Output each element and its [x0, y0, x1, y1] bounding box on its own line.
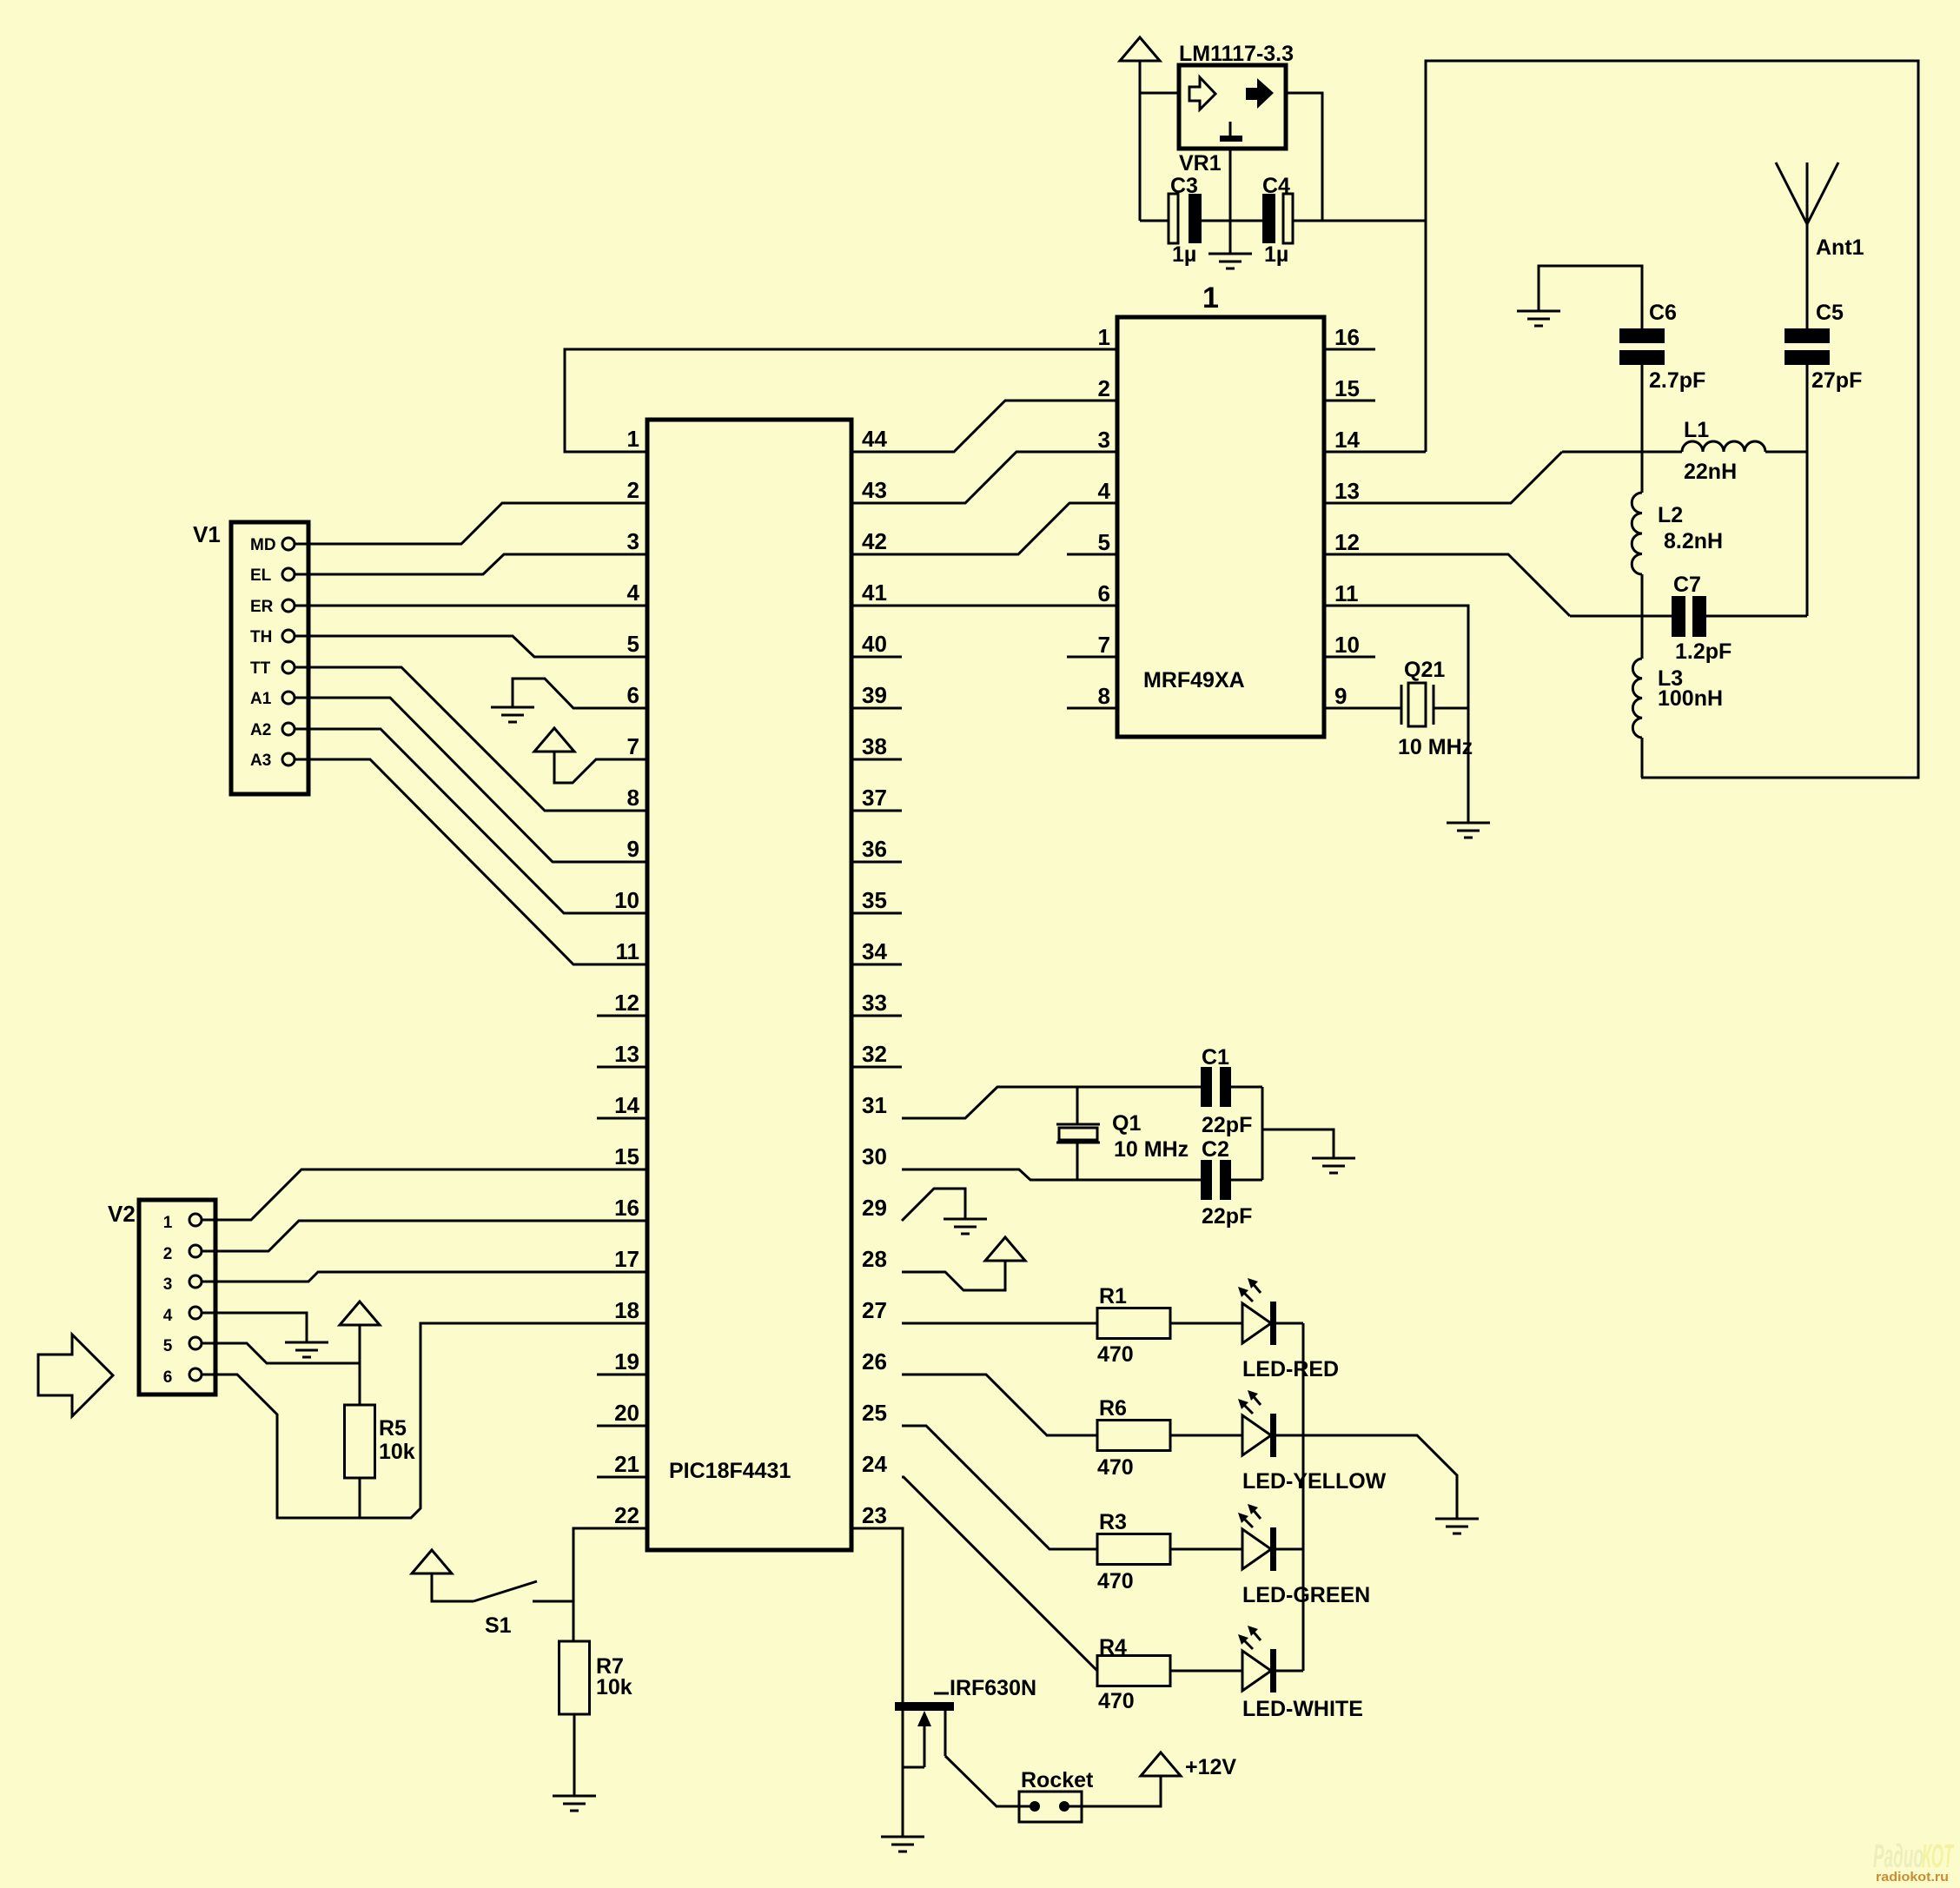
svg-text:5: 5	[1098, 529, 1110, 555]
svg-text:9: 9	[1334, 683, 1347, 709]
wire supply rail through C3 C4	[1140, 220, 1426, 222]
inductor L2	[1632, 493, 1723, 574]
svg-text:LED-GREEN: LED-GREEN	[1242, 1583, 1370, 1607]
wire PIC pin41 to MRF pin6	[851, 605, 1117, 607]
wire MRF pin8 stub	[1067, 707, 1117, 710]
svg-text:1: 1	[163, 1214, 173, 1232]
svg-text:A1: A1	[250, 690, 272, 708]
svg-text:30: 30	[862, 1143, 887, 1169]
wire LED-GREEN cathode to bus	[1276, 1548, 1303, 1551]
wire MRF pin15 stub	[1324, 400, 1375, 402]
svg-text:29: 29	[862, 1195, 887, 1221]
wire PIC pin1 to MRF pin1	[565, 349, 1117, 452]
IC U2 MRF49XA body	[1117, 317, 1324, 737]
wire PIC pin32 stub	[851, 1066, 902, 1069]
wire C6 column	[1641, 365, 1644, 778]
svg-text:LM1117-3.3: LM1117-3.3	[1179, 42, 1294, 66]
svg-text:7: 7	[627, 733, 639, 759]
crystal Q1	[1056, 1111, 1189, 1162]
wire V1 TT to PIC pin8	[295, 667, 647, 811]
transistor Q2 IRF630N	[895, 1676, 1036, 1837]
wire R4 to LED-WHITE	[1170, 1670, 1242, 1673]
resistor R4	[1097, 1635, 1170, 1713]
wire PIC pin36 stub	[851, 861, 902, 864]
wire PIC pin31 to C1 row	[902, 1087, 1201, 1118]
svg-text:1µ: 1µ	[1172, 242, 1196, 267]
svg-text:14: 14	[614, 1092, 639, 1118]
svg-text:42: 42	[862, 528, 887, 554]
wire PIC pin19 stub	[597, 1374, 647, 1376]
wire LED cathode bus	[1302, 1323, 1305, 1671]
power symbol S1	[412, 1550, 452, 1573]
svg-text:2.7pF: 2.7pF	[1649, 368, 1705, 393]
wire VR1 output	[1286, 93, 1322, 221]
ground PIC pin6	[491, 707, 534, 722]
svg-text:R3: R3	[1099, 1510, 1127, 1534]
svg-text:1: 1	[1098, 324, 1110, 350]
svg-text:11: 11	[1334, 580, 1359, 606]
ground V2 pin4	[285, 1342, 328, 1357]
wire power to R5	[359, 1325, 361, 1405]
svg-text:31: 31	[862, 1092, 887, 1118]
svg-text:10k: 10k	[379, 1440, 415, 1464]
wire V1 A1 to PIC pin9	[295, 698, 647, 862]
wire PIC pin14 stub	[597, 1117, 647, 1120]
power symbol VCC regulator	[1120, 37, 1160, 61]
wire PIC pin7 to power	[554, 752, 647, 783]
svg-text:V2: V2	[108, 1201, 136, 1227]
node V1 TH	[250, 628, 295, 646]
svg-text:6: 6	[163, 1368, 173, 1387]
wire C5 to C7 node	[1806, 365, 1809, 616]
wire V1 ER to PIC pin4	[295, 605, 647, 607]
capacitor C6	[1619, 301, 1705, 393]
ground LED-YELLOW	[1435, 1519, 1479, 1534]
wire VCC stem to rail	[1140, 61, 1179, 221]
svg-text:Rocket: Rocket	[1021, 1768, 1094, 1792]
capacitor C4	[1262, 174, 1293, 267]
svg-text:36: 36	[862, 836, 887, 862]
svg-text:20: 20	[614, 1400, 639, 1426]
svg-text:1: 1	[1202, 282, 1219, 315]
capacitor C7	[1672, 573, 1732, 664]
svg-text:TH: TH	[250, 628, 272, 646]
svg-text:8: 8	[627, 785, 639, 811]
svg-text:3: 3	[163, 1275, 173, 1294]
switch S1	[473, 1581, 573, 1638]
svg-text:Q21: Q21	[1404, 658, 1445, 682]
wire MRF pin3 to PIC pin43	[851, 452, 1117, 503]
watermark	[1873, 1838, 1954, 1885]
svg-text:C2: C2	[1202, 1137, 1229, 1162]
svg-text:16: 16	[1334, 324, 1360, 350]
svg-text:2: 2	[627, 477, 639, 503]
svg-text:10k: 10k	[596, 1675, 632, 1699]
svg-text:A3: A3	[250, 752, 271, 770]
capacitor C2	[1201, 1137, 1252, 1229]
wire V1 A2 to PIC pin10	[295, 729, 647, 913]
wire V1 A3 to PIC pin11	[295, 759, 647, 964]
svg-text:6: 6	[1098, 580, 1110, 606]
svg-text:10 MHz: 10 MHz	[1114, 1137, 1189, 1162]
wire PIC pin38 stub	[851, 759, 902, 761]
wire PIC pin30 to C2 row	[902, 1169, 1201, 1180]
wire PIC pin33 stub	[851, 1015, 902, 1017]
svg-text:2: 2	[1098, 375, 1110, 401]
svg-text:A2: A2	[250, 721, 271, 739]
resistor R1	[1097, 1284, 1170, 1367]
svg-text:40: 40	[862, 631, 887, 657]
svg-text:S1: S1	[485, 1613, 512, 1638]
svg-text:LED-YELLOW: LED-YELLOW	[1242, 1469, 1387, 1494]
svg-text:IRF630N: IRF630N	[950, 1676, 1036, 1700]
svg-text:3: 3	[627, 528, 639, 554]
wire PIC pin26 to R6	[902, 1375, 1097, 1435]
node V1 ER	[250, 598, 295, 616]
wire V1 EL to PIC pin3	[295, 554, 647, 574]
wire MRF pin12 to C7	[1324, 554, 1570, 616]
wire PIC pin24 to R4	[902, 1477, 1097, 1671]
svg-text:LED-RED: LED-RED	[1242, 1357, 1339, 1381]
wire C1 C2 to ground	[1231, 1087, 1334, 1180]
svg-text:28: 28	[862, 1246, 887, 1272]
power symbol R5	[340, 1302, 380, 1325]
wire R6 to LED-YELLOW	[1170, 1434, 1242, 1437]
wire MRF pin4 to PIC pin42	[851, 503, 1117, 554]
svg-text:PIC18F4431: PIC18F4431	[669, 1459, 791, 1483]
svg-text:Q1: Q1	[1112, 1111, 1141, 1136]
svg-text:8: 8	[1098, 683, 1110, 709]
ground R7	[553, 1796, 596, 1811]
svg-text:VR1: VR1	[1179, 151, 1222, 176]
pin 6 V2	[163, 1368, 202, 1387]
ground IRF630N source	[881, 1837, 924, 1852]
svg-text:10: 10	[1334, 632, 1360, 658]
svg-text:4: 4	[163, 1307, 173, 1325]
LED LED-GREEN	[1238, 1504, 1370, 1607]
inductor L3	[1632, 659, 1723, 738]
wire PIC pin29 to ground	[902, 1189, 965, 1221]
wire MRF pin5 stub	[1067, 553, 1117, 556]
svg-text:C5: C5	[1816, 301, 1844, 325]
svg-text:22: 22	[614, 1502, 639, 1528]
wire V2 pin4 to ground	[202, 1313, 307, 1342]
svg-text:4: 4	[627, 580, 640, 606]
svg-text:EL: EL	[250, 566, 272, 585]
svg-text:V1: V1	[193, 521, 221, 547]
svg-text:13: 13	[1334, 478, 1360, 504]
wire MRF pin10 stub	[1324, 656, 1375, 659]
svg-text:R1: R1	[1099, 1284, 1127, 1308]
svg-text:LED-WHITE: LED-WHITE	[1242, 1697, 1363, 1721]
svg-text:1.2pF: 1.2pF	[1675, 639, 1732, 664]
wire PIC pin23 to gate	[851, 1528, 903, 1702]
svg-text:26: 26	[862, 1348, 887, 1375]
wire LED-WHITE cathode to bus	[1276, 1670, 1303, 1673]
svg-text:470: 470	[1097, 1569, 1134, 1593]
svg-text:24: 24	[862, 1451, 887, 1477]
svg-text:13: 13	[614, 1041, 639, 1067]
arrow connector V2	[38, 1335, 113, 1416]
wire PIC pin39 stub	[851, 707, 902, 710]
svg-text:25: 25	[862, 1400, 887, 1426]
svg-text:470: 470	[1097, 1455, 1134, 1480]
svg-text:C6: C6	[1649, 301, 1677, 325]
wire PIC pin40 stub	[851, 656, 902, 659]
inductor L1	[1682, 418, 1765, 484]
IC U1 PIC18F4431 body	[647, 420, 851, 1550]
svg-text:6: 6	[627, 682, 639, 708]
node V1 A2	[250, 721, 295, 739]
svg-text:12: 12	[614, 990, 639, 1016]
wire MRF pin2 to PIC pin44	[851, 401, 1117, 452]
svg-text:470: 470	[1098, 1689, 1135, 1713]
svg-text:27pF: 27pF	[1811, 368, 1862, 393]
wire PIC pin28 to power	[902, 1261, 1005, 1290]
svg-text:21: 21	[614, 1451, 639, 1477]
ground VR1	[1208, 254, 1252, 268]
pin 5 V2	[163, 1337, 202, 1355]
svg-text:12: 12	[1334, 529, 1360, 555]
wire power to S1	[432, 1573, 473, 1601]
wire R1 to LED-RED	[1170, 1322, 1242, 1325]
wire MRF pin16 stub	[1324, 348, 1375, 351]
wire MRF pin11 to ground	[1324, 606, 1468, 823]
svg-text:19: 19	[614, 1348, 639, 1375]
wire MRF pin9 to crystal	[1324, 707, 1468, 710]
svg-text:14: 14	[1334, 427, 1360, 453]
svg-text:32: 32	[862, 1041, 887, 1067]
svg-text:Ant1: Ant1	[1816, 235, 1864, 260]
resistor R3	[1097, 1510, 1170, 1593]
svg-text:15: 15	[614, 1143, 639, 1169]
capacitor C1	[1201, 1045, 1252, 1137]
svg-text:41: 41	[862, 580, 887, 606]
svg-text:+12V: +12V	[1185, 1755, 1236, 1779]
wire PIC pin25 to R3	[902, 1426, 1097, 1549]
svg-text:7: 7	[1098, 632, 1110, 658]
wire PIC pin21 stub	[597, 1476, 647, 1479]
LED LED-YELLOW	[1238, 1390, 1387, 1494]
ground PIC pin29	[944, 1219, 987, 1234]
svg-text:27: 27	[862, 1297, 887, 1323]
wire V2 pin5 to R5 top	[202, 1343, 360, 1363]
svg-text:11: 11	[616, 938, 640, 964]
svg-text:23: 23	[862, 1502, 887, 1528]
capacitor C3	[1169, 174, 1202, 267]
svg-text:1µ: 1µ	[1264, 242, 1288, 267]
wire PIC pin22 to R7	[573, 1528, 647, 1641]
svg-text:C4: C4	[1262, 174, 1290, 198]
wire LED-RED cathode to bus	[1276, 1322, 1303, 1325]
pin 1 V2	[163, 1214, 202, 1232]
svg-text:R6: R6	[1099, 1396, 1127, 1421]
wire MRF pin13 to L1	[1324, 452, 1562, 503]
svg-text:R5: R5	[379, 1416, 407, 1441]
svg-text:22pF: 22pF	[1202, 1204, 1252, 1229]
wire MRF pin14 to supply loop	[1324, 451, 1426, 454]
svg-text:5: 5	[627, 631, 639, 657]
wire V2 pin3 to PIC pin17	[202, 1272, 647, 1282]
svg-text:C7: C7	[1673, 573, 1701, 597]
svg-text:100nH: 100nH	[1658, 686, 1723, 711]
svg-text:2: 2	[163, 1245, 173, 1263]
ground C1 C2	[1312, 1158, 1355, 1173]
ground Q21	[1447, 823, 1490, 838]
svg-text:43: 43	[862, 477, 887, 503]
connector V1	[231, 522, 308, 794]
node V1 A1	[250, 690, 295, 708]
wire PIC pin37 stub	[851, 810, 902, 812]
voltage regulator VR1 LM1117-3.3	[1179, 42, 1294, 176]
wire PIC pin34 stub	[851, 964, 902, 966]
wire PIC pin13 stub	[597, 1066, 647, 1069]
wire PIC pin35 stub	[851, 912, 902, 915]
resistor R7	[560, 1641, 632, 1714]
svg-text:37: 37	[862, 785, 887, 811]
resistor R6	[1097, 1396, 1170, 1480]
wire C7 row	[1570, 615, 1807, 618]
node V1 MD	[250, 536, 295, 554]
svg-text:16: 16	[614, 1195, 639, 1221]
wire V2 pin1 to PIC pin15	[202, 1169, 647, 1220]
svg-text:34: 34	[862, 938, 887, 964]
pin 4 V2	[163, 1307, 202, 1325]
wire L1 row	[1562, 451, 1807, 454]
wire V2 pin2 to PIC pin16	[202, 1221, 647, 1251]
node V1 A3	[250, 752, 295, 770]
svg-text:radiokot.ru: radiokot.ru	[1876, 1870, 1949, 1885]
node V1 TT	[250, 659, 295, 678]
svg-text:33: 33	[862, 990, 887, 1016]
svg-text:22nH: 22nH	[1684, 460, 1737, 484]
svg-text:1: 1	[627, 426, 639, 452]
power symbol PIC pin7	[534, 728, 574, 752]
node V1 EL	[250, 566, 295, 585]
svg-text:9: 9	[627, 836, 639, 862]
wire LED-YELLOW cathode to ground	[1276, 1435, 1457, 1519]
LED LED-WHITE	[1238, 1626, 1363, 1721]
pin 3 V2	[163, 1275, 202, 1294]
svg-text:C3: C3	[1170, 174, 1198, 198]
wire R3 to LED-GREEN	[1170, 1548, 1242, 1551]
svg-text:39: 39	[862, 682, 887, 708]
svg-text:4: 4	[1098, 478, 1111, 504]
svg-text:MD: MD	[250, 536, 276, 554]
wire Rocket to +12V	[1069, 1776, 1161, 1806]
ground C6	[1517, 311, 1560, 326]
capacitor C5	[1785, 301, 1862, 393]
svg-text:10 MHz: 10 MHz	[1398, 735, 1473, 759]
svg-text:R4: R4	[1099, 1635, 1127, 1659]
svg-text:L1: L1	[1684, 418, 1709, 442]
svg-text:10: 10	[614, 887, 639, 913]
wire PIC pin12 stub	[597, 1015, 647, 1017]
wire PIC pin20 stub	[597, 1425, 647, 1428]
connector V2	[139, 1200, 215, 1394]
svg-text:35: 35	[862, 887, 887, 913]
svg-text:3: 3	[1098, 427, 1110, 453]
svg-text:15: 15	[1334, 375, 1360, 401]
resistor R5	[345, 1405, 415, 1478]
wire PIC pin27 to R1	[902, 1322, 1097, 1325]
antenna Ant1	[1776, 162, 1838, 328]
svg-text:18: 18	[614, 1297, 639, 1323]
svg-text:44: 44	[862, 426, 887, 452]
pin 2 V2	[163, 1245, 202, 1263]
svg-text:MRF49XA: MRF49XA	[1143, 668, 1245, 692]
wire supply loop box	[1426, 61, 1918, 778]
wire VR1 ground stem	[1229, 149, 1232, 254]
connector Rocket	[1019, 1768, 1094, 1822]
svg-text:5: 5	[163, 1337, 173, 1355]
svg-text:8.2nH: 8.2nH	[1664, 529, 1723, 553]
svg-text:ER: ER	[250, 598, 274, 616]
crystal Q21	[1398, 658, 1473, 759]
power symbol +12V	[1141, 1752, 1181, 1776]
LED LED-RED	[1238, 1278, 1339, 1381]
svg-text:C1: C1	[1202, 1045, 1229, 1070]
svg-text:22pF: 22pF	[1202, 1113, 1252, 1137]
svg-text:L2: L2	[1658, 503, 1683, 527]
wire PIC pin6 to ground	[513, 679, 647, 708]
wire V1 MD to PIC pin2	[295, 503, 647, 544]
svg-text:17: 17	[614, 1246, 639, 1272]
wire R5 bottom	[359, 1478, 361, 1518]
wire crystal Q1 column	[1076, 1087, 1079, 1180]
wire drain to Rocket	[945, 1756, 1030, 1806]
svg-text:470: 470	[1097, 1342, 1134, 1367]
wire C6 ground hook	[1539, 266, 1642, 328]
wire MRF pin7 stub	[1067, 656, 1117, 659]
wire V1 TH to PIC pin5	[295, 636, 647, 657]
svg-text:38: 38	[862, 733, 887, 759]
svg-text:TT: TT	[250, 659, 271, 678]
wire R7 to ground	[573, 1714, 576, 1796]
wire V2 pin6 to PIC pin18	[202, 1323, 647, 1518]
power symbol PIC pin28	[985, 1237, 1025, 1261]
